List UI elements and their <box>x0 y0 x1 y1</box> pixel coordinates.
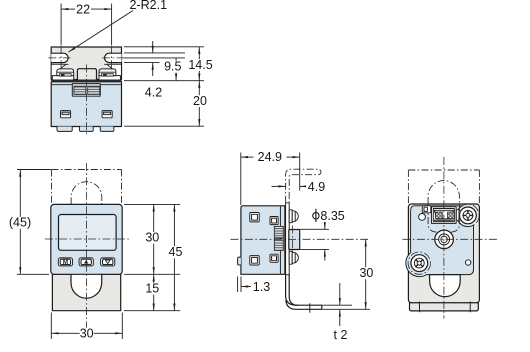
view 1 body upper gray section <box>51 47 121 80</box>
view 3 centerline <box>231 238 371 240</box>
svg-text:9.5: 9.5 <box>164 60 181 74</box>
svg-text:24.9: 24.9 <box>258 150 282 164</box>
svg-text:4.9: 4.9 <box>308 180 325 194</box>
dimension 30 bottom <box>51 332 122 334</box>
dimension 15 right <box>153 274 155 310</box>
view 2 lower gray section <box>52 274 120 310</box>
view 3 terminal BR <box>270 254 278 262</box>
view 3 bottom screw <box>289 251 292 264</box>
view 1 vertical centerline <box>86 65 88 136</box>
view 3 connector hatched blocks <box>274 226 283 237</box>
view 3 terminal BL <box>250 256 259 265</box>
view 1 grille hatched left <box>74 86 86 94</box>
view 2 centerlines <box>85 163 87 328</box>
view 3 center boss <box>289 230 300 250</box>
extension lines 24.9 <box>240 153 242 206</box>
view 3 left tab <box>238 257 241 265</box>
view 1 right slot R2.1 <box>105 53 122 62</box>
svg-text:15: 15 <box>145 282 159 296</box>
view 4 phantom dome <box>428 181 459 204</box>
dimension 9.5 <box>175 58 177 81</box>
svg-text:8.35: 8.35 <box>320 209 344 223</box>
svg-text:30: 30 <box>80 327 94 341</box>
view 2 button M <box>58 258 72 266</box>
view 3 terminal TL <box>250 213 259 222</box>
view 2 button up <box>79 258 93 266</box>
view 1 upper blue edge line <box>51 84 72 86</box>
view 1 left pedestal <box>52 76 73 80</box>
view 1 right bump <box>99 69 116 76</box>
svg-text:2-R2.1: 2-R2.1 <box>130 0 168 12</box>
svg-text:t 2: t 2 <box>334 328 348 342</box>
view 1 grille box <box>72 84 100 97</box>
svg-text:(45): (45) <box>9 216 31 230</box>
dimension phi 8.35 <box>300 228 329 230</box>
extension lines view 2 <box>17 169 51 171</box>
view 1 terminal right <box>102 111 112 118</box>
view 2 button down <box>101 258 115 266</box>
view 4 connector <box>432 207 457 224</box>
view 4 right small hole <box>466 260 471 265</box>
view 1 left slot R2.1 <box>51 53 68 62</box>
view 1 central tab <box>77 69 96 80</box>
view 3 foot bend tick <box>309 303 311 312</box>
view 4 body blue <box>406 206 474 277</box>
view 3 top screw <box>289 210 292 223</box>
view 2 display screen <box>59 215 117 251</box>
view 1 grille hatched right <box>88 86 100 94</box>
view 4 screw top-right <box>457 204 479 226</box>
svg-text:45: 45 <box>169 245 183 259</box>
view 4 bracket plate <box>408 204 479 303</box>
view 4 hidden top rect <box>408 169 479 171</box>
svg-text:M: M <box>63 259 68 266</box>
view 2 keyhole slot <box>71 274 102 298</box>
view 4 left hole <box>419 214 426 221</box>
svg-text:22: 22 <box>76 3 90 17</box>
dimension 24.9 <box>241 156 254 158</box>
svg-text:30: 30 <box>359 266 373 280</box>
svg-text:14.5: 14.5 <box>188 58 212 72</box>
view 3 terminal TR <box>270 217 278 225</box>
view 3 bracket phantom arm <box>286 169 321 203</box>
view 1 white recess right <box>108 65 121 75</box>
dimension 30 view3 <box>323 308 371 310</box>
view 2 hidden dome <box>71 182 102 205</box>
svg-text:20: 20 <box>193 94 207 108</box>
view 3 body back face line <box>279 206 281 274</box>
view 3 body <box>241 206 285 274</box>
dimension 20 <box>198 81 200 127</box>
view 4 foot band <box>410 303 479 311</box>
view 3 bracket plate <box>286 203 290 275</box>
view 2 hidden upper module dashed rect <box>52 169 122 171</box>
svg-text:4.2: 4.2 <box>145 86 162 100</box>
dimension 30 right <box>153 204 155 274</box>
view 4 small component left <box>422 206 431 213</box>
view 4 keyhole slot <box>430 275 461 297</box>
extension lines for 22 <box>60 4 62 46</box>
view 4 centerlines <box>443 157 445 319</box>
view 2 main body <box>51 204 122 274</box>
svg-text:30: 30 <box>145 231 159 245</box>
dimension 22 <box>61 8 75 10</box>
view 3 bracket bottom bend and foot <box>286 274 322 309</box>
dimension t 2 <box>323 304 353 306</box>
view 1 bar bottom edges <box>51 63 68 65</box>
extension lines right of view 1 <box>124 46 204 48</box>
svg-text:1.3: 1.3 <box>253 280 270 294</box>
view 1 white recess left <box>52 65 65 75</box>
view 4 screw bottom-left <box>408 252 430 274</box>
view 1 bottom tabs <box>57 127 72 132</box>
dimension 4.9 (outside arrows) <box>272 185 286 187</box>
view 1 terminal left <box>61 111 71 118</box>
dimension 1.3 <box>237 277 239 293</box>
view 1 right pedestal <box>99 76 120 80</box>
dimension 45 right <box>173 204 175 310</box>
dimension 4.2 (outside arrows) <box>152 41 154 53</box>
view 1 left bump <box>57 69 74 76</box>
view 4 phantom cylinder arcs <box>428 204 436 232</box>
view 1 section boundary thick line <box>51 80 121 82</box>
view 4 hub circles <box>435 230 454 249</box>
dimension (45) <box>19 170 21 275</box>
dimension 14.5 <box>198 47 200 81</box>
view 1 slot centerlines <box>48 57 70 59</box>
view 1 lower blue section <box>51 82 121 127</box>
